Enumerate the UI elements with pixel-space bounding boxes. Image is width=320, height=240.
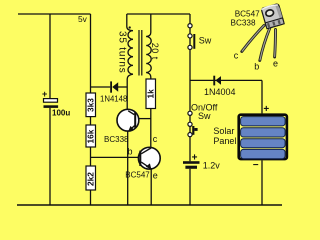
svg-text:35 turns: 35 turns <box>117 31 128 74</box>
svg-text:100u: 100u <box>52 109 70 118</box>
svg-text:+: + <box>263 104 269 115</box>
svg-text:Sw: Sw <box>199 35 212 45</box>
svg-text:c: c <box>153 134 158 144</box>
svg-text:1k: 1k <box>146 89 156 99</box>
svg-text:e: e <box>153 171 158 181</box>
svg-text:e: e <box>273 58 278 68</box>
svg-text:Solar: Solar <box>213 126 234 136</box>
svg-text:16k: 16k <box>86 129 96 143</box>
svg-text:20 t: 20 t <box>150 43 160 60</box>
svg-text:5v: 5v <box>78 14 88 24</box>
svg-text:BC338: BC338 <box>104 135 129 144</box>
svg-text:b: b <box>128 147 133 157</box>
svg-text:b: b <box>254 62 259 72</box>
svg-text:Panel: Panel <box>213 136 236 146</box>
svg-text:3k3: 3k3 <box>86 98 96 112</box>
svg-text:BC547: BC547 <box>125 171 150 180</box>
svg-text:c: c <box>234 51 239 61</box>
svg-text:BC547: BC547 <box>235 9 260 18</box>
svg-text:1N4148: 1N4148 <box>100 94 127 103</box>
svg-text:2k2: 2k2 <box>86 172 96 186</box>
svg-text:1N4004: 1N4004 <box>204 87 236 97</box>
svg-text:+: + <box>192 152 198 163</box>
svg-text:BC338: BC338 <box>231 18 256 27</box>
svg-text:1.2v: 1.2v <box>203 161 221 171</box>
svg-text:−: − <box>253 160 259 171</box>
svg-text:Sw: Sw <box>198 111 211 121</box>
svg-text:+: + <box>42 89 47 99</box>
